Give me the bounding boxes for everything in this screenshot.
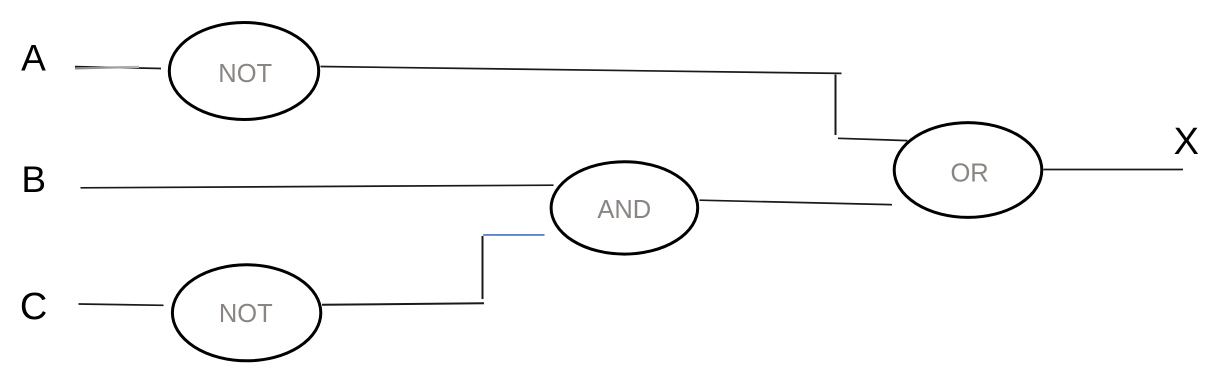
svg-text:B: B xyxy=(21,159,46,200)
svg-text:NOT: NOT xyxy=(218,60,272,88)
wire NOT U1 output horizontal xyxy=(321,67,842,74)
wire A input to NOT U1 xyxy=(75,67,161,69)
wire AND U2 output to OR U3 lower input xyxy=(700,200,893,205)
wire C input to NOT U4 xyxy=(79,304,164,305)
gate NOT U4 xyxy=(172,265,320,361)
gate OR U3 xyxy=(894,123,1042,218)
svg-text:NOT: NOT xyxy=(219,300,273,328)
gate NOT U1 xyxy=(169,23,318,120)
wire NOT U4 output horizontal xyxy=(322,303,484,305)
svg-text:A: A xyxy=(21,38,46,79)
wire B input to AND U2 xyxy=(81,185,554,188)
svg-text:AND: AND xyxy=(597,196,651,224)
svg-text:C: C xyxy=(20,286,47,328)
wire into OR U3 upper input xyxy=(838,138,908,140)
wire vertical drop to OR input xyxy=(835,75,837,136)
wire OR U3 output to X xyxy=(1044,169,1184,171)
svg-text:OR: OR xyxy=(950,160,988,188)
wire vertical rise to AND input xyxy=(482,236,484,299)
gate AND U2 xyxy=(551,162,698,254)
svg-text:X: X xyxy=(1174,121,1199,163)
wire blue segment into AND U2 lower input xyxy=(483,234,544,236)
